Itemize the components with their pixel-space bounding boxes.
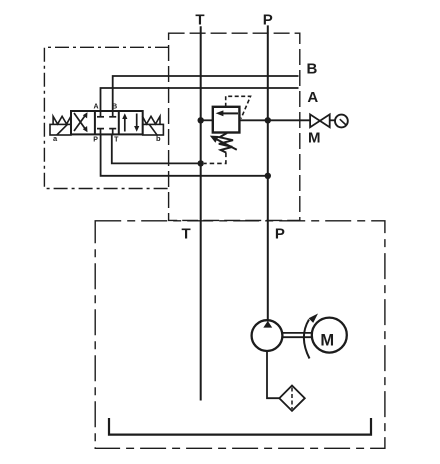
svg-text:M: M [320,332,334,350]
relief valve RV1 adjustment arrow [217,140,237,150]
junction dot T x valve return [198,160,204,166]
relief valve RV1 flow arrow [223,112,238,114]
wire pump suction [267,351,279,398]
relief valve RV1 drain line (dashed) [204,153,226,164]
tank reservoir outline [109,418,371,435]
wire M gauge line left segment [201,119,213,121]
svg-text:B: B [112,103,117,110]
motor M1 [312,318,347,353]
svg-text:T: T [114,137,119,144]
svg-text:P: P [275,225,285,242]
svg-text:P: P [93,137,98,144]
shutoff valve (gauge isolator) [310,114,330,127]
spring a [53,116,71,124]
junction dot P x M line [265,117,271,123]
svg-text:A: A [93,103,98,110]
pressure gauge G1 [335,115,348,128]
relief valve RV1 pilot line (dashed) [226,96,251,118]
wire valve P feed [101,134,268,175]
svg-text:B: B [306,61,317,78]
solenoid a [50,124,71,135]
valve V1 left position crossed arrows [74,112,88,132]
strainer F1 [279,386,305,411]
enclosure box subplate (dash-dot, top-left) [44,47,169,188]
spring b [142,116,160,124]
svg-text:A: A [307,89,318,106]
wire port B line [113,76,299,111]
wire T line vertical [200,26,202,400]
valve V1 right position parallel arrows [122,113,139,131]
pump PU1 [252,320,283,351]
relief valve RV1 body [213,107,240,133]
junction dot T x relief [198,117,204,123]
enclosure box manifold (dashed, top) [169,33,300,220]
wire port A line [101,88,299,111]
rotation arrow [304,320,310,359]
svg-text:T: T [182,225,191,242]
enclosure box power unit (dash-dot, bottom) [95,221,385,448]
wire M gauge line right segment [239,119,311,121]
svg-text:T: T [195,12,204,29]
wire P line vertical [267,25,269,320]
wire gauge link [330,119,335,121]
junction dot P x valve feed [265,173,271,179]
solenoid b [143,124,164,135]
valve V1 centre position blocked ports [97,111,116,134]
svg-text:b: b [156,134,161,143]
svg-text:M: M [308,129,321,146]
valve V1 body (4/3 directional) [71,111,143,134]
wire valve T return [112,134,201,163]
shaft pump-motor [282,332,311,334]
relief valve RV1 spring [219,133,233,153]
